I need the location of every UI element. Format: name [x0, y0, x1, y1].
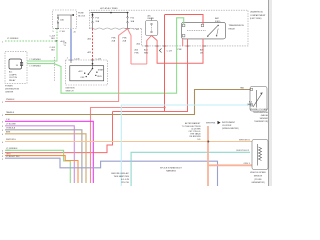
svg-text:PIN 7VE: PIN 7VE	[121, 182, 129, 184]
svg-text:COMPARTMENT: COMPARTMENT	[250, 14, 266, 17]
svg-text:TAN: TAN	[240, 86, 244, 89]
wire tan	[2, 131, 86, 183]
svg-text:SENSOR: SENSOR	[254, 176, 263, 178]
svg-text:TEMPERATURE: TEMPERATURE	[253, 111, 269, 114]
svg-text:PNK: PNK	[123, 37, 128, 39]
ignition switch contacts	[71, 60, 105, 79]
svg-text:C 129: C 129	[167, 50, 173, 52]
label power distribution center (left box)	[5, 86, 20, 94]
wire brown to coolant temp sender	[2, 86, 250, 117]
wire green dashed run (LT GRN/BLK) horizontal	[2, 38, 66, 43]
svg-text:POWER: POWER	[5, 86, 13, 88]
wire slate blue	[2, 156, 218, 186]
wire red relay output down	[113, 39, 188, 112]
svg-text:PNK: PNK	[112, 37, 117, 39]
connector C-126 labels at ignition box top	[69, 58, 102, 60]
svg-text:C-109: C-109	[50, 35, 56, 37]
svg-text:(TAN): (TAN)	[247, 103, 253, 106]
svg-text:BRN: BRN	[6, 131, 11, 133]
fuse block internal drop to blue feed	[70, 15, 72, 29]
wire light green lower	[2, 148, 70, 183]
power distribution center dashed box (HOT AT ALL TIMES)	[89, 7, 248, 46]
A/C compressor clutch relay dashed box	[5, 52, 27, 84]
svg-text:FUSE: FUSE	[78, 12, 84, 14]
fuse 2 (30A)	[127, 13, 135, 29]
svg-text:C-109: C-109	[50, 47, 56, 49]
svg-text:C 100: C 100	[134, 29, 140, 31]
svg-text:PNK: PNK	[178, 49, 183, 51]
label vehicle speed sensor	[250, 172, 266, 184]
svg-text:AFTER MARKET: AFTER MARKET	[185, 122, 201, 125]
svg-text:ORG 3: ORG 3	[244, 163, 251, 165]
svg-text:(SPEEDOMETER): (SPEEDOMETER)	[222, 128, 239, 130]
svg-text:RELAY: RELAY	[229, 27, 236, 30]
wire gray	[2, 126, 82, 183]
svg-text:GAUGE: GAUGE	[261, 114, 269, 117]
svg-text:LT GRN/BLK: LT GRN/BLK	[30, 66, 42, 68]
svg-text:CLUSTER: CLUSTER	[222, 125, 232, 127]
svg-text:THERMISTOR): THERMISTOR)	[254, 121, 268, 123]
wire teal VSS pin2	[131, 150, 250, 186]
svg-text:CLUTCH: CLUTCH	[9, 77, 18, 79]
svg-text:3-D: 3-D	[197, 139, 201, 141]
wire violet	[2, 123, 74, 183]
svg-text:4-D 4-7B: 4-D 4-7B	[121, 179, 130, 181]
svg-text:GY/BLK A: GY/BLK A	[6, 126, 16, 129]
svg-text:C-126: C-126	[74, 58, 80, 60]
svg-text:TRANSMISSION: TRANSMISSION	[229, 24, 245, 27]
fuse 1 (20A)	[92, 13, 100, 29]
svg-text:UNDERHOOD: UNDERHOOD	[250, 12, 264, 14]
note text bottom center left	[111, 172, 129, 184]
svg-text:C 100: C 100	[60, 31, 66, 33]
page edge border right	[269, 0, 272, 186]
connector ticks at power center bottom	[145, 45, 206, 47]
svg-text:INSTRUMENT: INSTRUMENT	[222, 122, 236, 124]
svg-text:BLK: BLK	[51, 38, 55, 40]
svg-text:LT GRN/BLK: LT GRN/BLK	[7, 38, 19, 40]
label power distribution center (right)	[250, 12, 266, 21]
svg-text:THE TAN-B: THE TAN-B	[190, 133, 201, 136]
svg-text:BLOCK: BLOCK	[78, 15, 85, 17]
wire blue ignition feed	[64, 29, 77, 60]
svg-text:THIS MASTOWS: THIS MASTOWS	[114, 175, 130, 178]
svg-text:START: START	[98, 69, 105, 72]
note text bottom center	[160, 166, 183, 172]
svg-text:CENTER: CENTER	[5, 92, 14, 94]
svg-text:TAN/BLK: TAN/BLK	[6, 111, 15, 114]
svg-text:WHT/ORG: WHT/ORG	[6, 139, 16, 141]
svg-text:C-126: C-126	[96, 58, 102, 60]
wire magenta	[2, 119, 93, 183]
wire green solid from A/C relay to transmission relay	[27, 18, 184, 93]
wire pink fuse2 tent right leg	[123, 29, 132, 64]
svg-text:COMPR: COMPR	[9, 74, 17, 76]
label transmission relay	[229, 24, 245, 30]
svg-text:HARNESS: HARNESS	[166, 170, 176, 173]
svg-text:A/C: A/C	[9, 71, 13, 74]
wire red B+ trunk	[164, 15, 204, 112]
relay U1 (transmission control relay)	[182, 22, 226, 39]
connector bracket near relay outputs	[53, 57, 55, 82]
wire white-orange to VSS pin1	[2, 139, 252, 144]
label FUSE BLOCK	[78, 12, 85, 17]
bus wire inside power center	[91, 12, 129, 14]
wire green dashed down to A/C relay	[27, 41, 57, 61]
svg-text:RUN: RUN	[97, 76, 102, 78]
labels LT GRN/BLK on relay outputs	[30, 59, 42, 67]
engine coolant temperature sender box	[250, 87, 267, 112]
labels on power center drops	[135, 42, 205, 54]
instrument cluster connector	[206, 121, 239, 130]
wire red tent below mini relay	[147, 36, 157, 47]
svg-text:PNK: PNK	[135, 52, 140, 54]
ignition switch dashed box	[66, 60, 108, 85]
wire red run-feed left with drop	[91, 108, 165, 184]
wire pink fuse2 tent left leg to salmon bus	[2, 29, 128, 104]
wire orange lower	[2, 153, 78, 183]
wire red jog to left bus	[2, 112, 113, 156]
svg-text:LT BLU/LT W-2: LT BLU/LT W-2	[6, 156, 20, 158]
svg-text:WHT/PNK: WHT/PNK	[206, 123, 216, 125]
svg-text:ORG: ORG	[6, 153, 11, 155]
svg-text:RELAY: RELAY	[9, 79, 16, 82]
wire red bus y63	[131, 39, 203, 64]
svg-text:SENDER: SENDER	[260, 118, 269, 120]
note text mid right	[182, 122, 201, 141]
fuse F? in fuse block	[57, 15, 64, 29]
svg-text:WHT/ORG 1: WHT/ORG 1	[239, 139, 251, 141]
svg-text:IGNITION: IGNITION	[66, 88, 75, 90]
svg-text:DISTRIBUTION: DISTRIBUTION	[5, 89, 20, 91]
svg-text:LT BLU/BK: LT BLU/BK	[6, 123, 16, 125]
A/C relay (mini relay in power center)	[145, 14, 158, 35]
label ignition switch	[66, 88, 75, 93]
svg-text:RELAY: RELAY	[148, 17, 155, 20]
fuse block box (top-left dashed box)	[53, 10, 77, 29]
svg-text:SWITCH: SWITCH	[66, 91, 74, 93]
svg-text:LT GRN/BLK: LT GRN/BLK	[6, 148, 18, 150]
svg-text:RED: RED	[144, 52, 149, 54]
svg-text:A/C: A/C	[148, 14, 152, 17]
wire salmon thick instrument cluster / VSS pin3	[207, 126, 252, 186]
svg-text:(LEFT SIDE): (LEFT SIDE)	[250, 18, 262, 20]
connector C100 at fuse 2 output	[126, 29, 140, 32]
svg-text:PNK/BLK: PNK/BLK	[6, 99, 15, 101]
svg-text:HOT AT ALL TIMES: HOT AT ALL TIMES	[100, 7, 118, 10]
svg-text:VEHICLE SPEED: VEHICLE SPEED	[250, 172, 266, 174]
svg-text:BEFORE 03/94 A/C: BEFORE 03/94 A/C	[111, 172, 129, 175]
svg-text:(PULSE: (PULSE	[254, 179, 262, 181]
wire red dashed ignition feed from fuse1	[87, 29, 92, 60]
svg-text:BLK/LT BLU 2: BLK/LT BLU 2	[237, 150, 250, 152]
svg-text:SPLICE IS NEAR BODY: SPLICE IS NEAR BODY	[160, 166, 183, 169]
svg-text:ACC: ACC	[79, 70, 84, 73]
wire cyan coolant temp sender	[121, 101, 253, 186]
svg-text:BLK: BLK	[51, 50, 55, 52]
svg-text:LT GRN/BLK: LT GRN/BLK	[30, 59, 42, 61]
svg-text:ENGINE COOLANT: ENGINE COOLANT	[250, 108, 269, 111]
wire green dashed vertical from fuse block	[50, 29, 66, 41]
label engine coolant temperature sender	[250, 108, 269, 123]
transmission relay label	[215, 17, 221, 23]
vehicle speed sensor box	[252, 140, 268, 170]
svg-text:GENERATOR): GENERATOR)	[251, 181, 264, 184]
